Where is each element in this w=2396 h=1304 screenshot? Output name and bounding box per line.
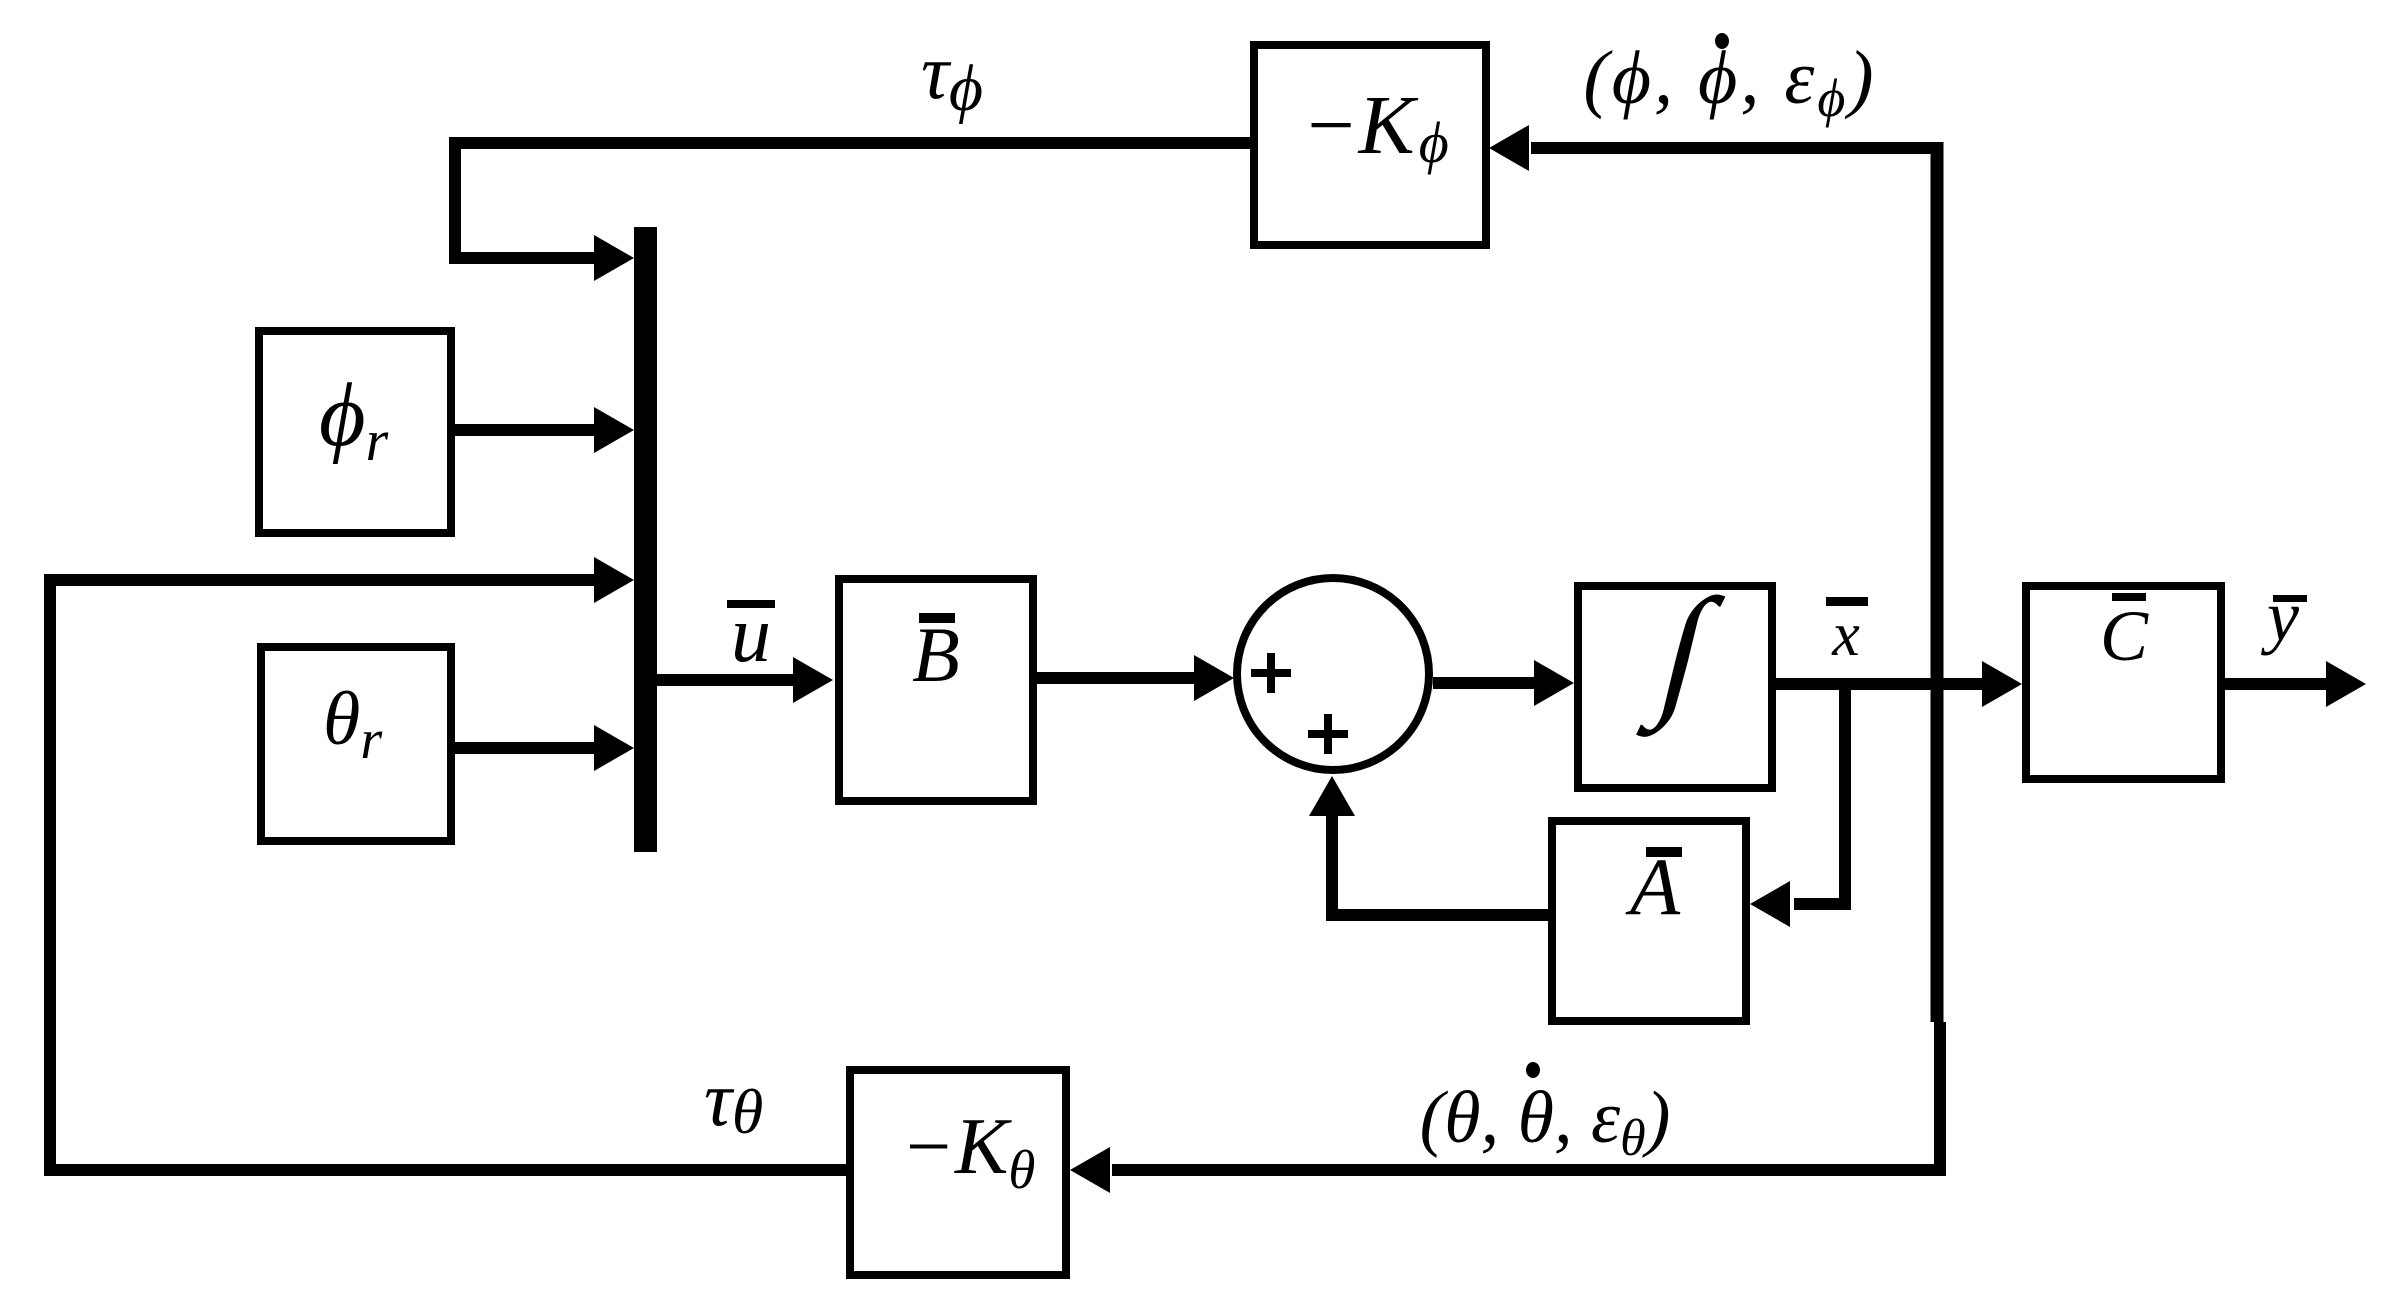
svg-text:C: C — [2100, 596, 2149, 676]
block B_bar — [839, 579, 1033, 801]
wire sensor (phi) into -K_phi from right vertical — [1531, 142, 1938, 154]
wire x_bar from integrator to C_bar — [1776, 678, 1984, 690]
wire y_bar output — [2225, 678, 2328, 690]
wire phi_r to mux — [455, 424, 596, 436]
block -K_theta — [850, 1070, 1066, 1275]
wire tau_phi feedback from -K_phi to mux — [455, 143, 1250, 258]
wire sum to integrator — [1433, 677, 1536, 689]
block phi_r — [259, 331, 451, 533]
summing junction — [1237, 578, 1429, 770]
wire tall right vertical (sensor bus) — [1931, 142, 1944, 1022]
wire tau_theta feedback: -K_theta out, left vertical, into mux — [50, 580, 846, 1170]
block integrator — [1578, 569, 1772, 788]
wire u_bar from mux to B_bar — [657, 674, 795, 686]
label x_bar — [1826, 597, 1868, 669]
label (phi, phidot, eps_phi) — [1583, 33, 1876, 128]
svg-text:x: x — [1831, 601, 1860, 669]
label (theta, thetadot, eps_theta) — [1420, 1062, 1671, 1167]
label y_bar — [2260, 576, 2307, 656]
svg-text:B: B — [912, 611, 960, 698]
block theta_r — [261, 647, 451, 841]
block A_bar — [1552, 821, 1746, 1021]
svg-text:u: u — [731, 591, 771, 679]
block C_bar — [2026, 586, 2221, 779]
wire x_bar tap down to A_bar — [1794, 684, 1845, 904]
wire A_bar back to sum (+) — [1332, 814, 1548, 915]
wire theta_r to mux — [455, 742, 596, 754]
wire sensor (theta) into -K_theta from right vertical — [1112, 1164, 1938, 1176]
svg-text:A: A — [1625, 841, 1681, 932]
label u_bar — [727, 591, 775, 679]
mux bar — [634, 227, 657, 852]
wire B_bar to sum — [1037, 672, 1196, 684]
block -K_phi — [1254, 45, 1486, 245]
